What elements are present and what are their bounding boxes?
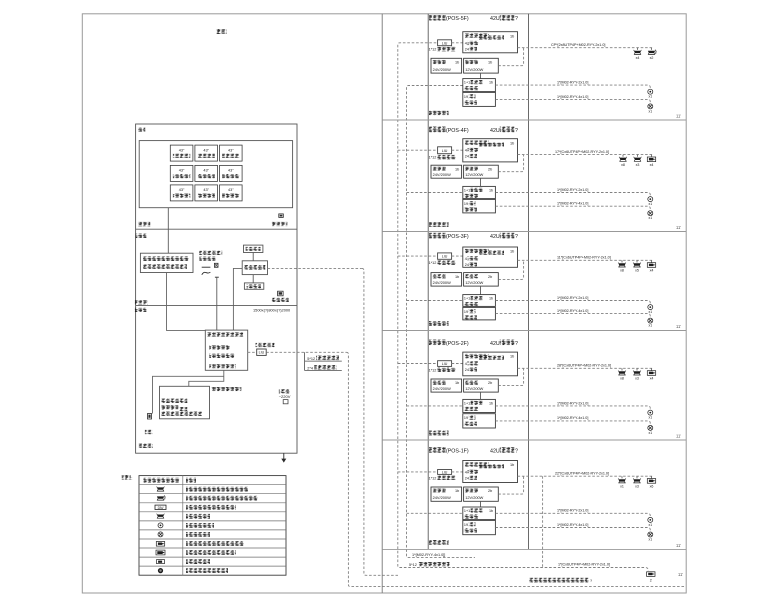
- camera box x4 2F: [651, 368, 653, 370]
- svg-text:43": 43": [179, 169, 185, 173]
- alarm button 2F: [648, 410, 653, 415]
- monitor cell r3c2: [195, 185, 218, 201]
- legend name row5: [186, 514, 210, 519]
- monitor cell r3c1: [170, 185, 193, 201]
- wire monitor wall drop: [167, 208, 169, 230]
- operator/server text box: [140, 253, 193, 272]
- legend name row4: [186, 505, 236, 510]
- svg-text:x1: x1: [649, 202, 653, 206]
- power label MPQU: [279, 389, 290, 393]
- monitor cell r3c3: [220, 185, 243, 201]
- svg-text:(POS-2F): (POS-2F): [446, 341, 469, 347]
- mid cable 2F: [495, 406, 650, 410]
- svg-text:43": 43": [203, 169, 209, 173]
- svg-text:?: ?: [515, 341, 518, 347]
- svg-text:1b: 1b: [455, 167, 459, 171]
- monitor cell r2c2: [195, 165, 218, 181]
- sounder 5F: [648, 104, 653, 109]
- svg-text:x4: x4: [636, 56, 640, 60]
- svg-text:1b: 1b: [489, 188, 493, 192]
- wire LIU to switch 1F: [452, 471, 463, 473]
- svg-text:?: ?: [515, 16, 518, 22]
- legend name row7: [186, 532, 210, 537]
- svg-text:~220V: ~220V: [279, 394, 291, 399]
- drawing border frame: [82, 14, 686, 593]
- svg-text:42U: 42U: [490, 341, 500, 347]
- svg-text:x1: x1: [649, 95, 653, 99]
- svg-text:LIU: LIU: [442, 41, 448, 45]
- wire LIU to switch 5F: [452, 42, 463, 44]
- PSU 12V box 3F: [464, 273, 499, 287]
- floor separator below 2F: [382, 439, 686, 441]
- basement note text: [529, 578, 589, 583]
- svg-text:4: 4: [465, 149, 467, 153]
- svg-text:1b: 1b: [489, 81, 493, 85]
- riser D dashed (power riser): [407, 86, 476, 558]
- PSU loop 4F: [498, 155, 523, 172]
- svg-text:1*12: 1*12: [429, 261, 437, 265]
- svg-text:1*[M02-RYY-4x1.0]: 1*[M02-RYY-4x1.0]: [557, 416, 588, 420]
- switch text 3F: [465, 249, 489, 253]
- fiber label above LIU: [256, 343, 275, 347]
- rack zone label above: [135, 300, 148, 304]
- low cable 4F: [495, 206, 650, 210]
- top cable 5F: [518, 47, 654, 49]
- switch text 4F: [465, 141, 489, 145]
- svg-text:24: 24: [465, 368, 469, 372]
- equip room label: [136, 234, 147, 238]
- svg-text:43": 43": [179, 188, 185, 192]
- wire riser D branch 4F: [407, 192, 463, 194]
- svg-text:?: ?: [515, 128, 518, 134]
- monitor cell r1c3: [220, 145, 243, 161]
- svg-text:19: 19: [464, 202, 468, 206]
- svg-text:19: 19: [464, 416, 468, 420]
- platform line1: [209, 345, 230, 349]
- rack zone label below: [135, 308, 147, 312]
- camera dome x5 3F: [636, 260, 638, 262]
- svg-text:x4: x4: [650, 269, 654, 273]
- room label 2F: [429, 431, 449, 436]
- wire switch-decoder: [252, 275, 254, 283]
- svg-text:1*[M02-RYY-2x1.0]: 1*[M02-RYY-2x1.0]: [557, 401, 588, 405]
- svg-text:x2: x2: [650, 56, 654, 60]
- svg-text:x5: x5: [635, 269, 639, 273]
- camera box x4 4F: [651, 155, 653, 157]
- mid cable 4F: [495, 193, 650, 197]
- management switch box: [242, 261, 267, 275]
- LIU box control room: [257, 349, 267, 355]
- svg-text:1b: 1b: [489, 297, 493, 301]
- wire PSU12 to industrial 5F: [480, 73, 482, 79]
- legend name row11: [186, 568, 228, 573]
- dashed net line switch to riser B: [268, 267, 362, 269]
- legend symbol row11: [158, 568, 163, 573]
- floor header 2F: [429, 340, 446, 346]
- svg-text:?: ?: [515, 448, 518, 454]
- svg-text:12V/200W: 12V/200W: [465, 280, 483, 285]
- svg-text:x4: x4: [650, 163, 654, 167]
- wire riser D branch 1F: [407, 512, 463, 514]
- svg-text:24V/200W: 24V/200W: [433, 172, 451, 177]
- svg-text:1*[Cx6UTP4P+M02-RYY-2x1.0]: 1*[Cx6UTP4P+M02-RYY-2x1.0]: [558, 563, 610, 567]
- svg-text:4: 4: [465, 362, 467, 366]
- console icon lines: [202, 266, 211, 268]
- wire operator box drop to platform: [167, 273, 206, 331]
- mid cable 3F: [495, 301, 650, 305]
- floor separator below 1F: [382, 548, 686, 550]
- svg-text:43": 43": [228, 188, 234, 192]
- platform line3: [209, 364, 236, 368]
- camera dome x3 2F: [636, 368, 638, 370]
- camera dome x4 5F: [637, 48, 639, 50]
- TV-wall zone label: [138, 222, 151, 226]
- camera dome x8 4F: [622, 155, 624, 157]
- dashed platform to LIU: [248, 351, 257, 353]
- floor header 5F: [429, 15, 446, 21]
- svg-text:1+1: 1+1: [464, 297, 470, 301]
- svg-text:1+1: 1+1: [464, 188, 470, 192]
- camera dome x8 3F: [621, 260, 623, 262]
- alarm button 4F: [648, 197, 653, 202]
- svg-text:12V/200W: 12V/200W: [465, 67, 483, 72]
- floor separator below 4F: [382, 231, 686, 233]
- svg-text:43": 43": [203, 188, 209, 192]
- svg-text:4: 4: [465, 42, 467, 46]
- svg-text:1b: 1b: [510, 250, 514, 254]
- low cable 5F: [495, 99, 650, 103]
- svg-text:1b: 1b: [455, 381, 459, 385]
- wire PSU12 to industrial 2F: [480, 392, 482, 399]
- svg-text:42U: 42U: [490, 448, 500, 454]
- legend grid lines: [139, 484, 286, 486]
- svg-text:x1: x1: [649, 324, 653, 328]
- legend name row3: [186, 496, 258, 501]
- camera box x4 3F: [651, 260, 653, 262]
- svg-text:1+1: 1+1: [464, 81, 470, 85]
- label top-left of control room: [138, 128, 146, 132]
- wire platform to keyboard: [153, 376, 224, 413]
- svg-text:1*[M02-RYY-4x1.0]: 1*[M02-RYY-4x1.0]: [557, 309, 588, 313]
- svg-text:x4: x4: [650, 377, 654, 381]
- svg-text:24: 24: [465, 155, 469, 159]
- sounder 4F: [648, 211, 653, 216]
- svg-text:11*[Cx6UTP4P+M02-RYY-2x1.0]: 11*[Cx6UTP4P+M02-RYY-2x1.0]: [557, 256, 611, 260]
- riser B dashed (net riser): [362, 268, 398, 575]
- legend symbol row9: [156, 550, 165, 555]
- PSU 24V box 1F: [431, 487, 462, 501]
- svg-text:2*4: 2*4: [307, 366, 313, 370]
- svg-text:(POS-1F): (POS-1F): [446, 448, 469, 454]
- platform title: [207, 332, 243, 336]
- svg-text:1b: 1b: [488, 61, 492, 65]
- switch text 5F: [465, 34, 489, 38]
- svg-text:43": 43": [228, 148, 234, 152]
- svg-text:x1: x1: [620, 484, 624, 488]
- svg-text:22*[Cx6UTP4P+M02-RYY-2x1.0]: 22*[Cx6UTP4P+M02-RYY-2x1.0]: [555, 472, 609, 476]
- industrial switch box 2F: [463, 399, 496, 412]
- svg-text:24: 24: [465, 48, 469, 52]
- svg-text:1b: 1b: [510, 141, 514, 145]
- svg-text:x6: x6: [650, 484, 654, 488]
- svg-text:2b: 2b: [488, 275, 492, 279]
- LIU box 3F: [438, 253, 452, 259]
- video management platform box: [205, 330, 247, 370]
- svg-text:1b: 1b: [510, 463, 514, 467]
- controller text line1: [161, 399, 187, 403]
- svg-text:x1: x1: [649, 431, 653, 435]
- legend header col2: [186, 478, 196, 483]
- room label 3F: [429, 321, 449, 326]
- monitor wall inner box: [139, 141, 292, 208]
- svg-text:x8: x8: [620, 377, 624, 381]
- camera dome x3 4F: [637, 155, 639, 157]
- TV/power small box: [244, 245, 263, 252]
- keyboard icon box: [148, 414, 152, 420]
- storage icon: [278, 291, 284, 296]
- section line control-room / equip-room: [136, 228, 297, 230]
- svg-text:1b: 1b: [510, 34, 514, 38]
- wire riser C branch 2F: [398, 363, 438, 365]
- svg-text:LIU: LIU: [442, 362, 448, 366]
- svg-text:CP*[2x8UTP4P+M02-RYY-2x1.0]: CP*[2x8UTP4P+M02-RYY-2x1.0]: [551, 43, 605, 47]
- svg-text:(POS-3F): (POS-3F): [446, 234, 469, 240]
- camera box x6 1F: [651, 476, 653, 478]
- mid cable 5F: [495, 85, 650, 89]
- sounder 2F: [648, 425, 653, 430]
- console label line2: [199, 257, 215, 261]
- svg-text:19: 19: [464, 523, 468, 527]
- legend name row9: [186, 550, 236, 555]
- legend name row10: [186, 559, 210, 564]
- svg-text:?: ?: [590, 579, 592, 583]
- alarm button 1F: [648, 517, 653, 522]
- camera dome x8 2F: [621, 368, 623, 370]
- svg-text:1*[M02-RYY-4x1.0]: 1*[M02-RYY-4x1.0]: [557, 202, 588, 206]
- svg-text:24: 24: [465, 263, 469, 267]
- legend symbol row7: [158, 532, 163, 537]
- low cable 3F: [495, 314, 650, 318]
- svg-text:1b: 1b: [455, 275, 459, 279]
- svg-text:24V/200W: 24V/200W: [433, 495, 451, 500]
- svg-text:1+1: 1+1: [464, 401, 470, 405]
- legend header col1: [144, 478, 180, 483]
- floor separator below 5F: [382, 119, 686, 121]
- monitor cell r2c1: [170, 165, 193, 181]
- legend symbol row8: [156, 542, 164, 547]
- wire PSU12 to industrial 1F: [480, 501, 482, 507]
- floor cabinet left edge: [427, 14, 429, 550]
- storage label: [272, 298, 289, 302]
- keyboard label: [145, 430, 153, 434]
- PSU 12V box 5F: [464, 58, 499, 73]
- sounder 3F: [648, 318, 653, 323]
- top cable 4F: [518, 154, 654, 156]
- svg-text:4: 4: [465, 257, 467, 261]
- console label line1: [199, 251, 222, 255]
- svg-text:19: 19: [464, 95, 468, 99]
- svg-text:19: 19: [464, 310, 468, 314]
- wire LIU to switch 4F: [452, 149, 463, 151]
- down arrow below box: [283, 453, 285, 459]
- svg-text:1*[M02-RYY-2x1.0]: 1*[M02-RYY-2x1.0]: [557, 81, 588, 85]
- svg-text:2b: 2b: [488, 381, 492, 385]
- basement tap wire: [542, 476, 544, 567]
- LIU box 5F: [438, 40, 452, 46]
- controller label right: [211, 387, 241, 391]
- svg-text:x1: x1: [649, 310, 653, 314]
- svg-text:1*[M02-RYY-2x1.0]: 1*[M02-RYY-2x1.0]: [557, 509, 588, 513]
- industrial switch box 1F: [463, 507, 496, 520]
- legend symbol row6: [158, 523, 163, 528]
- top cable 3F: [518, 259, 654, 261]
- operator box text line1: [143, 256, 189, 261]
- controller text line3: [161, 412, 202, 416]
- wire platform drop junction: [189, 370, 224, 386]
- svg-text:11': 11': [676, 543, 681, 548]
- 19in distribution box 1F: [463, 520, 496, 534]
- PSU 24V box 3F: [431, 273, 462, 287]
- svg-text:12V/200W: 12V/200W: [465, 495, 483, 500]
- svg-text:43": 43": [203, 148, 209, 152]
- TTT output label: [272, 222, 288, 226]
- controller text line2: [161, 405, 178, 409]
- switch text 2F: [465, 354, 489, 358]
- svg-text:1b: 1b: [489, 509, 493, 513]
- room label 1F: [429, 540, 449, 545]
- PSU 24V box 4F: [431, 165, 462, 178]
- PSU 12V box 2F: [464, 379, 499, 392]
- monitor cell r2c3: [220, 165, 243, 181]
- svg-text:x3: x3: [635, 377, 639, 381]
- PSU 24V box 2F: [431, 379, 462, 392]
- industrial switch box 5F: [463, 79, 496, 92]
- svg-text:1*12: 1*12: [429, 476, 437, 480]
- svg-text:42U: 42U: [490, 128, 500, 134]
- svg-text:17*[Cx6UTP4P+M02-RYY-2x1.0]: 17*[Cx6UTP4P+M02-RYY-2x1.0]: [555, 150, 609, 154]
- svg-text:x1: x1: [649, 416, 653, 420]
- svg-text:24V/200W: 24V/200W: [433, 67, 451, 72]
- top cable 2F: [518, 367, 654, 369]
- wire riser C branch 4F: [398, 149, 438, 151]
- svg-text:4: 4: [465, 470, 467, 474]
- platform line2: [209, 354, 234, 358]
- svg-text:5*12: 5*12: [409, 563, 417, 567]
- wire LIU to switch 2F: [452, 363, 463, 365]
- svg-text:x8: x8: [620, 269, 624, 273]
- camera dome x1 1F: [621, 476, 623, 478]
- PSU 24V box 5F: [431, 58, 462, 73]
- svg-text:1*12: 1*12: [429, 48, 437, 52]
- riser A dashed (fiber to basement): [347, 352, 686, 586]
- svg-text:43": 43": [228, 169, 234, 173]
- svg-text:1b: 1b: [455, 489, 459, 493]
- svg-text:1b: 1b: [489, 401, 493, 405]
- svg-text:24V/200W: 24V/200W: [433, 280, 451, 285]
- svg-text:1500x(?)800x(?)2000: 1500x(?)800x(?)2000: [253, 307, 291, 312]
- wire riser D branch 3F: [407, 300, 463, 302]
- svg-text:24: 24: [465, 476, 469, 480]
- svg-text::: :: [131, 476, 132, 481]
- PSU loop 3F: [498, 260, 523, 279]
- svg-text:1*[M02-RYY-4x1.0]]: 1*[M02-RYY-4x1.0]]: [412, 553, 445, 557]
- low cable 2F: [495, 421, 650, 425]
- svg-text:11': 11': [676, 433, 681, 438]
- sounder 1F: [648, 532, 653, 537]
- 19in distribution box 5F: [463, 92, 496, 106]
- legend symbol row2: [157, 487, 165, 492]
- access switch box 1F: [463, 461, 518, 483]
- svg-text:11': 11': [676, 113, 681, 118]
- decoder small box: [244, 283, 263, 289]
- svg-text:x1: x1: [649, 216, 653, 220]
- TTT output icon: [279, 214, 284, 218]
- svg-text:11': 11': [676, 225, 681, 230]
- svg-text:11': 11': [678, 572, 683, 577]
- legend symbol row3: [157, 495, 165, 500]
- svg-text:1b: 1b: [455, 61, 459, 65]
- wire PSU12 to industrial 4F: [480, 178, 482, 186]
- PSU loop 2F: [498, 368, 523, 385]
- floor separator below 3F: [382, 330, 686, 332]
- svg-text:1+1: 1+1: [464, 509, 470, 513]
- wire tv-switch: [252, 253, 254, 261]
- decoder/controller box: [160, 386, 210, 419]
- svg-text:42U: 42U: [490, 234, 500, 240]
- switch text 1F: [465, 462, 489, 466]
- section line equip/rack: [136, 305, 297, 307]
- 19in distribution box 4F: [463, 199, 496, 213]
- svg-text:?: ?: [515, 234, 518, 240]
- svg-text:(POS-4F): (POS-4F): [446, 128, 469, 134]
- industrial switch box 4F: [463, 186, 496, 198]
- control room outer box: [136, 124, 297, 453]
- svg-text:DN/: DN/: [158, 506, 164, 510]
- solid trunk line: [381, 14, 383, 593]
- svg-text:12V/200W: 12V/200W: [465, 172, 483, 177]
- LIU box 1F: [438, 470, 452, 475]
- fiber terminal labels block: [304, 352, 306, 370]
- alarm button 5F: [648, 89, 653, 94]
- svg-text:x8: x8: [621, 163, 625, 167]
- svg-text:1*12: 1*12: [429, 368, 437, 372]
- wire riser D branch 2F: [407, 405, 463, 407]
- wire switch left L-drop: [233, 268, 242, 330]
- svg-text:LIU: LIU: [442, 255, 448, 259]
- svg-text:LIU: LIU: [442, 471, 448, 475]
- dashed LIU to riser A: [266, 351, 346, 353]
- riser C dashed (optical riser): [398, 43, 648, 571]
- control room bottom label: [139, 444, 153, 448]
- access switch box 4F: [463, 139, 518, 162]
- floor header 1F: [429, 447, 446, 453]
- svg-text:2b: 2b: [488, 489, 492, 493]
- wire section to operator box: [167, 229, 169, 253]
- operator box text line2: [143, 264, 187, 269]
- svg-text:12V/200W: 12V/200W: [465, 386, 483, 391]
- access switch box 2F: [463, 352, 518, 376]
- room label 5F: [429, 111, 449, 116]
- svg-text:2: 2: [650, 579, 652, 583]
- low cable 1F: [495, 528, 650, 532]
- 19in distribution box 3F: [463, 307, 496, 320]
- LIU box 4F: [438, 147, 452, 154]
- svg-text:1*[M02-RYY-4x1.0]: 1*[M02-RYY-4x1.0]: [557, 523, 588, 527]
- legend name row8: [186, 541, 244, 546]
- legend symbol row10: [157, 560, 165, 564]
- floor cabinet right edge: [528, 14, 530, 550]
- power small box: [283, 400, 288, 404]
